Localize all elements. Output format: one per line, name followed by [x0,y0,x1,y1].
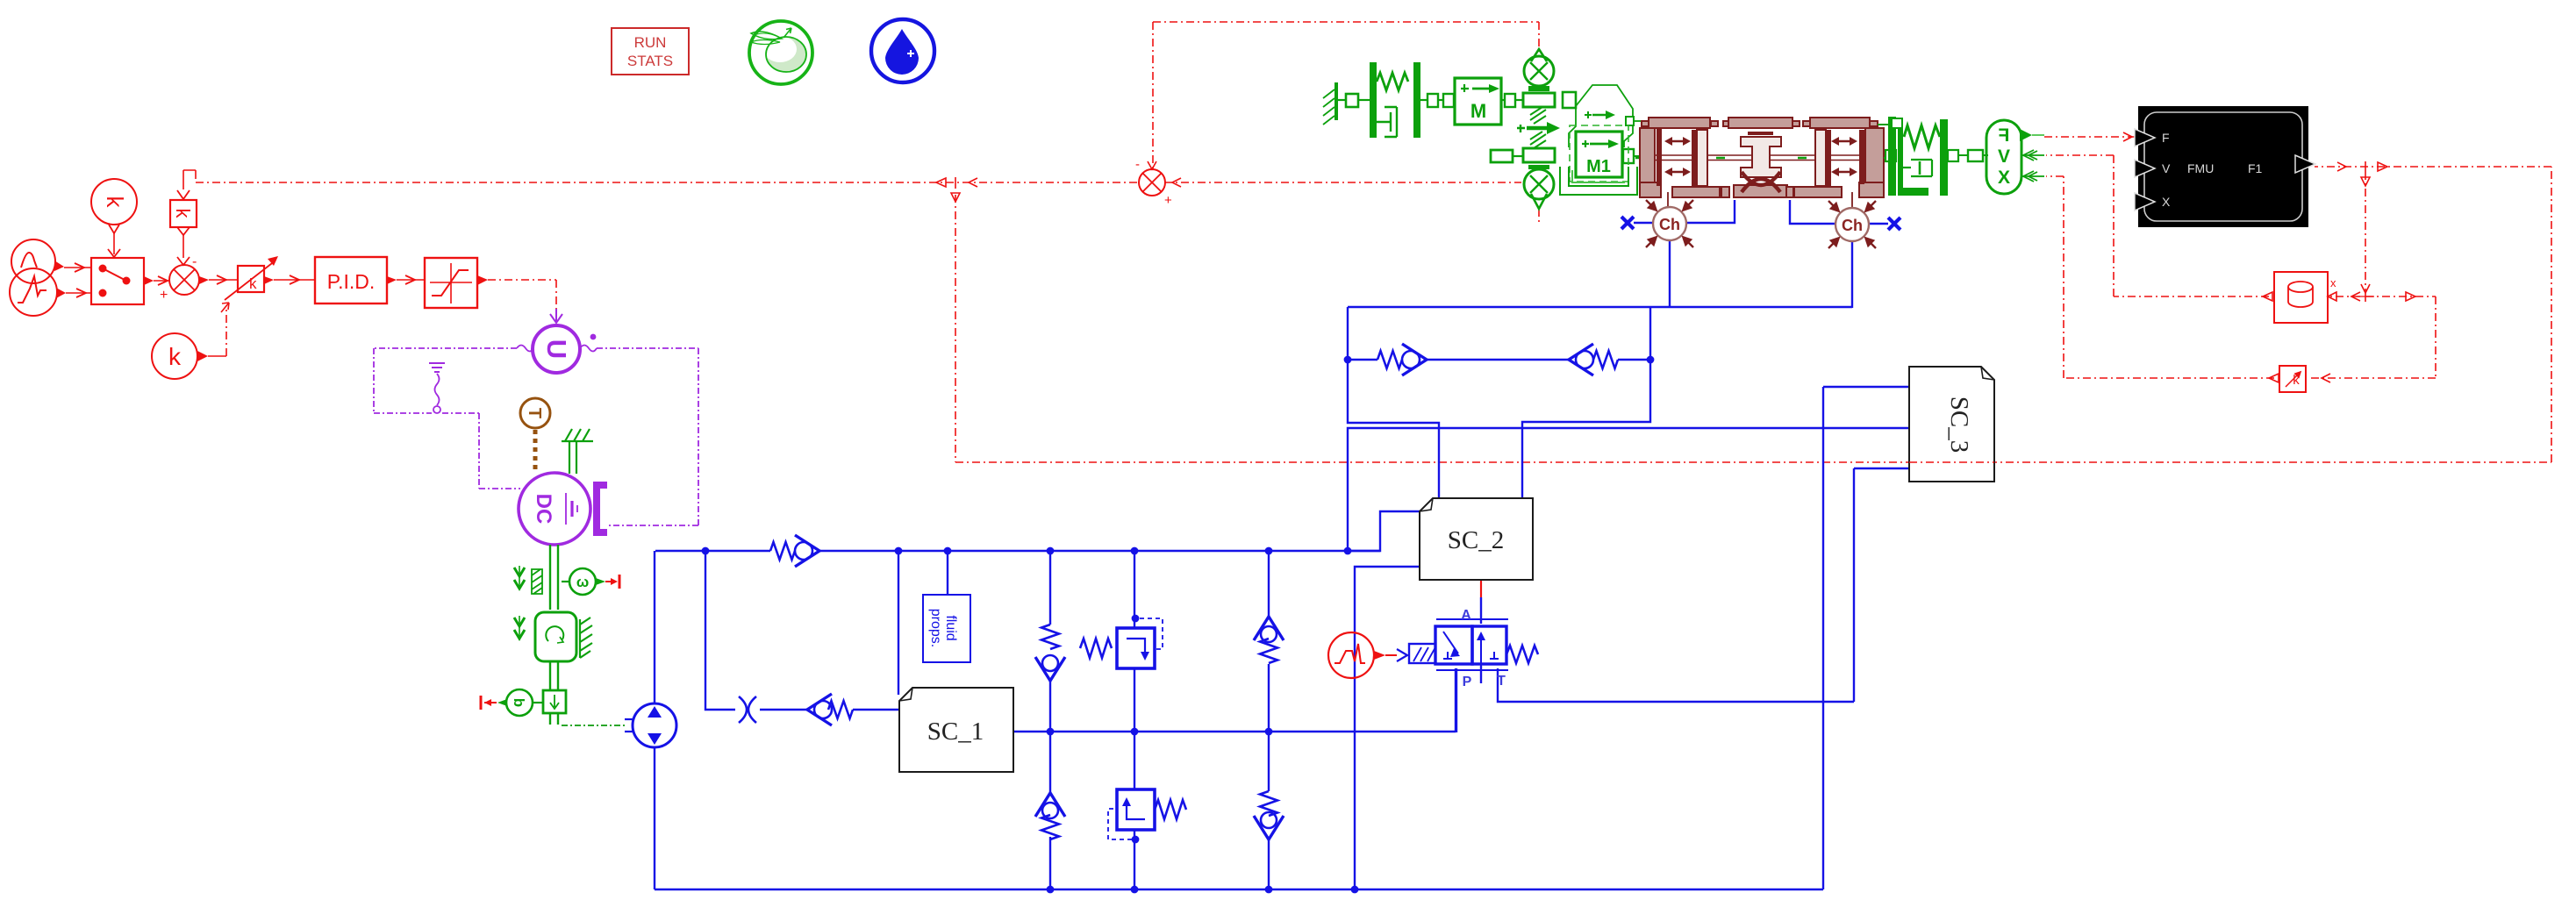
svg-text:FMU: FMU [2187,161,2214,175]
svg-text:STATS: STATS [627,53,673,69]
svg-text:+: + [1164,193,1172,208]
svg-text:SC_2: SC_2 [1448,526,1504,554]
svg-text:k: k [168,343,182,370]
svg-text:-: - [1135,157,1140,172]
svg-text:M1: M1 [1586,157,1611,176]
svg-text:RUN: RUN [634,34,667,51]
svg-text:P.I.D.: P.I.D. [327,270,376,293]
svg-text:A: A [1461,608,1471,623]
svg-text:props.: props. [928,609,943,647]
svg-text:SC_1: SC_1 [927,718,984,746]
svg-text:k: k [102,196,128,209]
svg-text:U: U [541,339,572,359]
svg-text:Ch: Ch [1842,217,1863,234]
svg-text:X: X [2162,195,2171,209]
svg-text:x: x [2330,276,2336,289]
svg-text:-: - [192,254,197,269]
svg-text:+: + [160,288,168,303]
svg-text:ω: ω [576,574,589,590]
svg-text:F: F [1998,125,2009,146]
svg-text:k: k [172,209,194,219]
svg-text:P: P [1463,675,1472,689]
svg-text:DC: DC [532,494,555,525]
svg-text:b: b [511,698,527,707]
svg-text:M: M [1470,100,1486,122]
svg-text:F: F [2162,131,2170,145]
svg-text:V: V [1998,146,2010,167]
svg-text:X: X [1998,168,2010,188]
svg-text:V: V [2162,161,2171,175]
svg-text:F1: F1 [2248,161,2263,175]
svg-text:T: T [1497,674,1506,689]
svg-text:SC_3: SC_3 [1945,396,1973,453]
svg-text:Ch: Ch [1659,216,1680,233]
svg-text:fluid: fluid [943,615,958,640]
svg-text:T: T [525,408,544,418]
